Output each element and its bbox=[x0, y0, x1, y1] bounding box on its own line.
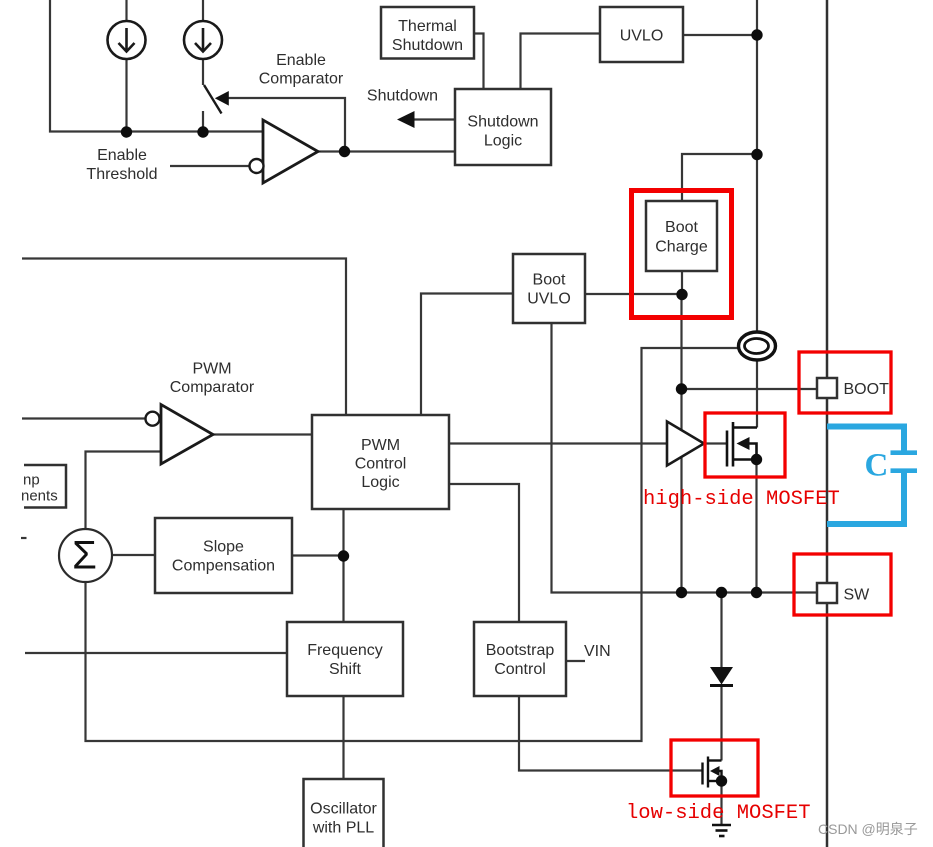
svg-text:Control: Control bbox=[494, 661, 546, 678]
current source I1 bbox=[108, 21, 146, 59]
wire frequency shift to oscillator bbox=[342, 696, 344, 779]
wire current source 1 stems bbox=[125, 0, 127, 21]
box thermal shutdown bbox=[381, 7, 474, 59]
arrow to switch bbox=[215, 91, 229, 106]
junction boot charge feed / VIN bus bbox=[751, 149, 762, 160]
wire shutdown arrow line bbox=[415, 118, 456, 120]
junction diode branch / SW rail bbox=[716, 587, 727, 598]
svg-text:SW: SW bbox=[844, 587, 871, 604]
wire sw to diode bbox=[720, 593, 722, 668]
wire top horizontal to pwm logic bbox=[22, 259, 346, 416]
wire left vertical into enable bus bbox=[50, 0, 263, 132]
box bootstrap control bbox=[474, 622, 566, 696]
svg-text:CSDN @明泉子: CSDN @明泉子 bbox=[818, 821, 918, 837]
svg-text:PWM: PWM bbox=[192, 361, 231, 378]
box pwm control logic bbox=[312, 415, 449, 509]
junction high-side source / SW rail bbox=[751, 587, 762, 598]
wire small stub at left edge bbox=[21, 537, 27, 539]
svg-text:PWM: PWM bbox=[361, 437, 400, 454]
wire bus to boot charge bbox=[682, 154, 757, 201]
node ring on VIN bus bbox=[739, 332, 776, 360]
svg-text:Thermal: Thermal bbox=[398, 18, 457, 35]
junction boot uvlo / boot charge output bbox=[676, 289, 687, 300]
red highlight high-side MOSFET bbox=[705, 413, 785, 477]
wire pwm comparator output bbox=[213, 433, 312, 435]
high-side gate driver bbox=[667, 422, 704, 466]
svg-text:high-side MOSFET: high-side MOSFET bbox=[643, 488, 840, 511]
red highlight boot charge bbox=[632, 191, 732, 318]
svg-text:Logic: Logic bbox=[484, 133, 522, 150]
svg-text:UVLO: UVLO bbox=[527, 291, 571, 308]
svg-text:BOOT: BOOT bbox=[844, 381, 890, 398]
svg-text:Compensation: Compensation bbox=[172, 558, 275, 575]
wire uvlo to vin bus bbox=[683, 34, 757, 36]
wire enable threshold input bbox=[170, 165, 250, 167]
junction switch / enable bus bbox=[197, 126, 208, 137]
junction low-side source / bulk bbox=[716, 775, 727, 786]
pwm comparator bbox=[146, 405, 214, 465]
junction UVLO / VIN bus bbox=[751, 29, 762, 40]
wire VIN stub bbox=[566, 660, 585, 662]
wire high-side source to sw bbox=[755, 460, 757, 593]
wire sigma bottom current sense loop bbox=[86, 348, 739, 741]
wire pwm comparator top input bbox=[22, 417, 146, 419]
ground bbox=[712, 825, 731, 836]
junction high-side source / bulk bbox=[751, 454, 762, 465]
junction boot node / BOOT pin wire bbox=[676, 383, 687, 394]
arrow shutdown bbox=[397, 111, 415, 128]
wire boot uvlo left to pwm logic bbox=[421, 294, 513, 416]
svg-text:Enable: Enable bbox=[97, 147, 147, 164]
wire enable comparator output bbox=[318, 150, 455, 152]
svg-text:Control: Control bbox=[355, 456, 407, 473]
svg-text:Comparator: Comparator bbox=[259, 71, 344, 88]
wire pwm to bootstrap control bbox=[449, 484, 519, 622]
box oscillator with pll bbox=[304, 779, 384, 847]
current source I2 bbox=[184, 21, 222, 59]
wire boot uvlo right bbox=[585, 293, 682, 295]
svg-text:C: C bbox=[865, 448, 889, 484]
svg-text:nents: nents bbox=[21, 488, 58, 505]
wire pwm comparator lower input bbox=[86, 452, 162, 529]
box boot charge bbox=[646, 201, 717, 271]
transistor Q2 low-side MOSFET bbox=[703, 757, 722, 788]
svg-text:Charge: Charge bbox=[655, 239, 708, 256]
svg-text:Boot: Boot bbox=[665, 219, 698, 236]
svg-text:Shutdown: Shutdown bbox=[467, 114, 538, 131]
switch blade bbox=[204, 85, 222, 114]
box partial left (cut) bbox=[21, 465, 66, 508]
enable comparator U-EN bbox=[250, 120, 319, 183]
wire thermal shutdown to shutdown logic bbox=[474, 34, 484, 90]
wire vin bus to high-side drain bbox=[756, 361, 758, 428]
junction boot line / SW rail bbox=[676, 587, 687, 598]
wire diode to low-side drain bbox=[720, 685, 722, 761]
svg-text:Enable: Enable bbox=[276, 52, 326, 69]
box boot uvlo bbox=[513, 254, 585, 323]
svg-text:Frequency: Frequency bbox=[307, 642, 383, 659]
red highlight BOOT pin bbox=[799, 352, 891, 413]
wire uvlo to shutdown logic bbox=[521, 34, 601, 90]
red highlight low-side MOSFET bbox=[671, 740, 758, 796]
wire boot node to BOOT pin bbox=[682, 388, 818, 390]
box slope compensation bbox=[155, 518, 292, 593]
diode D1 bbox=[710, 667, 733, 686]
sigma adder bbox=[59, 529, 112, 582]
wire pwm logic bottom to frequency shift bbox=[342, 509, 344, 622]
red highlight SW pin bbox=[794, 554, 891, 615]
node SW pin bbox=[817, 583, 870, 604]
wire low-side source to ground bbox=[720, 781, 722, 824]
wire switch lower stub bbox=[202, 111, 204, 132]
capacitor C (blue) bbox=[827, 427, 904, 525]
wire current source 2 stem bbox=[202, 0, 204, 21]
svg-text:Threshold: Threshold bbox=[86, 166, 157, 183]
svg-text:Comparator: Comparator bbox=[170, 379, 255, 396]
svg-text:Boot: Boot bbox=[533, 272, 566, 289]
node BOOT pin bbox=[817, 378, 889, 398]
svg-text:Slope: Slope bbox=[203, 539, 244, 556]
box UVLO bbox=[600, 7, 683, 62]
svg-text:Oscillator: Oscillator bbox=[310, 801, 377, 818]
svg-text:Bootstrap: Bootstrap bbox=[486, 642, 555, 659]
svg-text:VIN: VIN bbox=[584, 643, 611, 660]
junction enable comparator output bbox=[339, 146, 350, 157]
svg-text:Logic: Logic bbox=[361, 474, 399, 491]
wire slope compensation to pwm vertical bbox=[292, 554, 344, 556]
svg-text:low-side MOSFET: low-side MOSFET bbox=[626, 802, 811, 825]
box frequency shift bbox=[287, 622, 403, 696]
box shutdown logic bbox=[455, 89, 551, 165]
IC boundary right vertical bbox=[826, 0, 829, 847]
svg-text:np: np bbox=[23, 472, 40, 489]
svg-text:UVLO: UVLO bbox=[620, 28, 664, 45]
wire VIN bus top bbox=[756, 0, 758, 332]
svg-text:Σ: Σ bbox=[72, 534, 97, 578]
junction current source 1 / enable bus bbox=[121, 126, 132, 137]
wire frequency shift left input bbox=[25, 652, 287, 654]
junction slope compensation / pwm-frequency line bbox=[338, 550, 349, 561]
wire boot uvlo bottom to sw node bbox=[552, 323, 818, 593]
wire boot charge down chain bbox=[681, 271, 683, 295]
wire pwm to high-side driver bbox=[449, 442, 667, 444]
svg-text:Shutdown: Shutdown bbox=[392, 37, 463, 54]
svg-text:Shift: Shift bbox=[329, 661, 362, 678]
wire sigma to slope compensation bbox=[113, 554, 156, 556]
svg-text:Shutdown: Shutdown bbox=[367, 88, 438, 105]
wire driver to gate bbox=[704, 442, 727, 444]
wire bootstrap control to low-side gate bbox=[519, 696, 702, 771]
transistor Q1 high-side MOSFET bbox=[727, 422, 757, 467]
svg-text:with PLL: with PLL bbox=[312, 820, 374, 837]
wire enable feedback bbox=[229, 98, 346, 152]
